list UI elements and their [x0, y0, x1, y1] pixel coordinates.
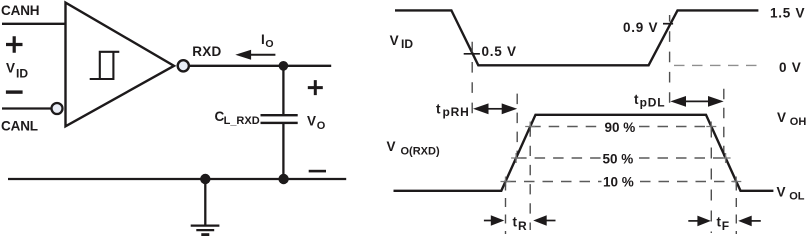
svg-text:V: V [307, 114, 316, 129]
svg-text:CANL: CANL [1, 119, 38, 134]
dashed vertical t_R right (90% rise) [529, 127, 531, 231]
svg-text:O: O [317, 120, 326, 132]
node junction rail/capacitor [278, 174, 288, 184]
svg-text:O: O [265, 38, 273, 50]
hysteresis symbol [90, 52, 120, 79]
svg-text:V: V [387, 139, 396, 154]
dashed 10% level [506, 181, 602, 183]
arrow t_pDL [684, 100, 710, 102]
grey cross tick fall 90% [706, 122, 716, 132]
wire RXD output [190, 65, 331, 67]
svg-text:ID: ID [401, 37, 413, 51]
svg-text:ID: ID [16, 66, 28, 80]
svg-text:1.5 V: 1.5 V [770, 5, 805, 20]
svg-text:V: V [6, 60, 15, 75]
grey cross tick rise 90% [525, 122, 535, 132]
wire CANL input [2, 107, 52, 109]
svg-text:R: R [518, 219, 527, 233]
svg-text:F: F [722, 219, 729, 233]
dashed 0 V level [674, 64, 757, 66]
svg-text:t: t [436, 102, 441, 117]
ground [191, 179, 220, 230]
waveform V_ID [395, 10, 758, 65]
svg-text:V: V [390, 33, 399, 48]
node junction RXD/capacitor [279, 61, 289, 71]
svg-text:V: V [777, 185, 786, 200]
dashed vertical at 0.9V crossing [669, 15, 671, 108]
dashed vertical t_R left (10% rise) [505, 182, 507, 235]
svg-text:50 %: 50 % [603, 151, 634, 166]
wire ground rail [8, 178, 346, 180]
dashed 50% level [516, 157, 601, 159]
label + (V_O polarity) [308, 80, 323, 95]
svg-text:t: t [717, 215, 722, 230]
svg-text:90 %: 90 % [605, 120, 636, 135]
svg-text:L_RXD: L_RXD [224, 115, 260, 127]
op-amp U1 (receiver comparator triangle) [66, 3, 175, 127]
svg-text:0.9 V: 0.9 V [623, 20, 658, 35]
arrow I_O (current direction) [249, 54, 275, 56]
svg-text:10 %: 10 % [603, 175, 634, 190]
label − (V_ID negative) [6, 90, 23, 93]
dashed vertical t_F left (90% fall) [710, 127, 712, 234]
svg-text:OL: OL [789, 191, 805, 203]
arrow t_F left [688, 220, 698, 222]
dashed vertical at 0.5V crossing [471, 42, 473, 115]
node junction rail/ground stub [200, 174, 210, 184]
output bubble [178, 60, 189, 71]
input bubble (inverting input) [52, 103, 63, 114]
svg-text:OH: OH [790, 116, 807, 128]
dashed vertical at 50% rise crossing [516, 94, 518, 159]
svg-text:CANH: CANH [1, 3, 39, 18]
svg-text:pRH: pRH [443, 105, 470, 119]
svg-text:I: I [261, 32, 265, 47]
wire CANH input [2, 23, 65, 25]
grey cross tick rise 50% [511, 153, 521, 163]
svg-text:0.5 V: 0.5 V [482, 44, 517, 59]
grey cross tick fall 50% [721, 153, 731, 163]
dashed vertical t_F right (10% fall) [735, 182, 737, 235]
tick 0.9 V crossing [663, 23, 673, 25]
grey cross tick fall 10% [731, 177, 741, 187]
wire capacitor top [282, 66, 284, 115]
svg-text:t: t [634, 92, 639, 107]
svg-text:pDL: pDL [640, 95, 666, 109]
svg-text:t: t [513, 215, 518, 230]
svg-text:RXD: RXD [192, 44, 221, 59]
arrow t_R right [546, 220, 556, 222]
label − (V_O negative) [309, 170, 326, 173]
svg-text:O(RXD): O(RXD) [401, 146, 440, 158]
capacitor C_L_RXD [261, 114, 298, 116]
waveform V_O(RXD) [394, 115, 774, 191]
dashed 90% level [530, 126, 601, 128]
arrow t_F right [751, 220, 761, 222]
dashed vertical at 50% fall crossing [723, 89, 725, 159]
arrow t_R left [484, 220, 492, 222]
tick 0.5 V crossing [464, 53, 480, 55]
label + (V_ID polarity) [6, 36, 23, 52]
grey cross tick rise 10% [501, 177, 511, 187]
svg-text:V: V [777, 110, 786, 125]
arrow t_pRH [487, 108, 503, 110]
svg-text:0 V: 0 V [779, 60, 802, 75]
wire capacitor bottom [282, 124, 284, 179]
